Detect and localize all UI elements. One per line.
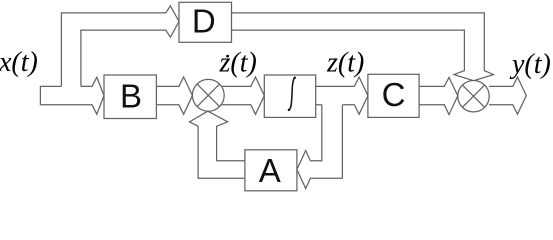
svg-text:C: C — [382, 76, 406, 113]
svg-text:y(t): y(t) — [509, 49, 551, 80]
svg-text:x(t): x(t) — [0, 47, 38, 78]
svg-text:z(t): z(t) — [326, 47, 364, 78]
svg-text:B: B — [120, 77, 142, 114]
svg-text:D: D — [192, 3, 216, 40]
svg-text:A: A — [259, 152, 281, 189]
svg-text:z(t): z(t) — [219, 47, 257, 78]
